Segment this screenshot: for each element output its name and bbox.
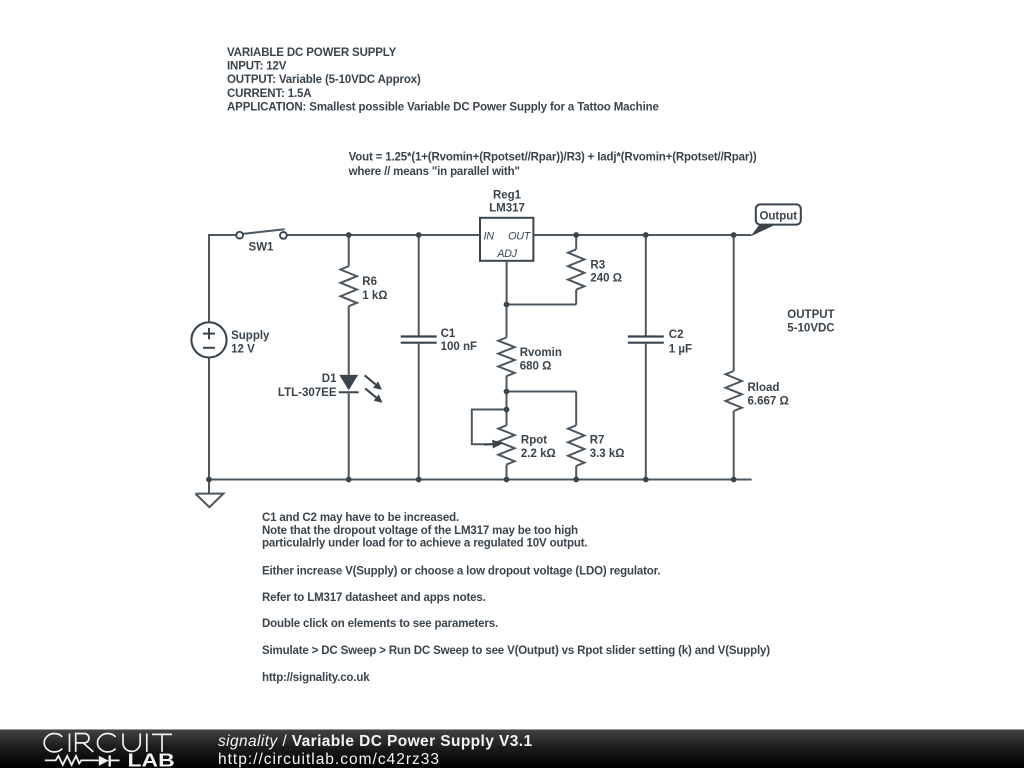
svg-text:APPLICATION: Smallest possible: APPLICATION: Smallest possible Variable … bbox=[227, 102, 659, 114]
svg-text:LM317: LM317 bbox=[489, 203, 525, 215]
svg-text:5-10VDC: 5-10VDC bbox=[787, 323, 834, 335]
svg-text:3.3 kΩ: 3.3 kΩ bbox=[590, 448, 625, 460]
svg-text:LAB: LAB bbox=[128, 751, 175, 768]
svg-text:C2: C2 bbox=[669, 329, 684, 341]
svg-text:100 nF: 100 nF bbox=[441, 341, 477, 353]
svg-text:Refer to LM317 datasheet and a: Refer to LM317 datasheet and apps notes. bbox=[262, 592, 486, 604]
svg-text:LTL-307EE: LTL-307EE bbox=[278, 387, 337, 399]
svg-text:Output: Output bbox=[759, 211, 797, 223]
svg-text:INPUT: 12V: INPUT: 12V bbox=[227, 61, 287, 73]
svg-text:Rload: Rload bbox=[748, 382, 780, 394]
svg-text:Simulate > DC Sweep > Run DC S: Simulate > DC Sweep > Run DC Sweep to se… bbox=[262, 645, 770, 657]
svg-text:Reg1: Reg1 bbox=[493, 190, 522, 202]
svg-text:SW1: SW1 bbox=[249, 241, 275, 253]
svg-text:1 kΩ: 1 kΩ bbox=[362, 290, 387, 302]
svg-text:OUTPUT: OUTPUT bbox=[787, 309, 834, 321]
svg-text:R7: R7 bbox=[590, 435, 605, 447]
svg-text:R3: R3 bbox=[590, 260, 605, 272]
svg-text:Supply: Supply bbox=[231, 330, 270, 342]
svg-text:R6: R6 bbox=[362, 276, 377, 288]
svg-text:Either increase V(Supply) or c: Either increase V(Supply) or choose a lo… bbox=[262, 565, 660, 577]
svg-text:IN: IN bbox=[484, 231, 495, 243]
svg-text:680 Ω: 680 Ω bbox=[520, 361, 552, 373]
svg-text:Rpot: Rpot bbox=[521, 435, 547, 447]
svg-text:ADJ: ADJ bbox=[496, 248, 517, 260]
svg-text:Vout = 1.25*(1+(Rvomin+(Rpotse: Vout = 1.25*(1+(Rvomin+(Rpotset//Rpar))/… bbox=[349, 152, 757, 164]
svg-text:2.2 kΩ: 2.2 kΩ bbox=[521, 448, 556, 460]
svg-text:D1: D1 bbox=[322, 373, 337, 385]
svg-text:OUTPUT: Variable (5-10VDC Appr: OUTPUT: Variable (5-10VDC Approx) bbox=[227, 74, 421, 86]
svg-text:12 V: 12 V bbox=[231, 343, 255, 355]
svg-text:6.667 Ω: 6.667 Ω bbox=[748, 395, 789, 407]
svg-text:where // means "in parallel wi: where // means "in parallel with" bbox=[348, 166, 520, 178]
svg-text:240 Ω: 240 Ω bbox=[590, 273, 622, 285]
svg-text:Double click on elements to se: Double click on elements to see paramete… bbox=[262, 618, 498, 630]
svg-text:VARIABLE DC POWER SUPPLY: VARIABLE DC POWER SUPPLY bbox=[227, 47, 397, 59]
svg-text:http://signality.co.uk: http://signality.co.uk bbox=[262, 672, 370, 684]
svg-text:OUT: OUT bbox=[508, 231, 532, 243]
svg-text:1 µF: 1 µF bbox=[669, 344, 692, 356]
svg-text:Note that the dropout voltage: Note that the dropout voltage of the LM3… bbox=[262, 525, 578, 537]
svg-text:Rvomin: Rvomin bbox=[520, 347, 562, 359]
svg-text:particulalrly under load for t: particulalrly under load for to achieve … bbox=[262, 538, 587, 550]
svg-text:C1 and C2 may have to be incre: C1 and C2 may have to be increased. bbox=[262, 512, 459, 524]
svg-text:C1: C1 bbox=[441, 328, 456, 340]
svg-text:CURRENT: 1.5A: CURRENT: 1.5A bbox=[227, 88, 311, 100]
